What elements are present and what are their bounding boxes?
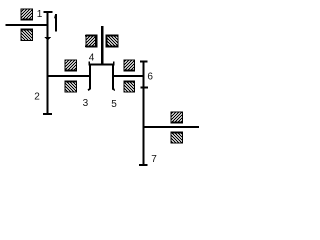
gear 7 lower half — [171, 132, 183, 143]
gear 5 lower half — [124, 81, 135, 92]
clutch right foot — [112, 88, 115, 91]
gear 4 right half — [106, 35, 119, 47]
bearing cap top of shaft I — [43, 11, 52, 13]
clutch left foot — [88, 88, 91, 91]
shaft I vertical — [47, 11, 49, 115]
arrow marker on shaft II — [140, 87, 148, 89]
gear 7 upper half — [171, 112, 183, 123]
clutch right leg — [112, 64, 114, 89]
arrow marker on shaft I — [45, 37, 51, 40]
gear 3 lower half — [65, 81, 77, 92]
shaft II vertical right — [143, 61, 145, 166]
svg-text:2: 2 — [34, 91, 40, 102]
gear 4 left half — [85, 35, 97, 47]
clutch yoke left tick — [88, 62, 89, 64]
wire: input horizontal shaft segment top-left — [6, 24, 49, 26]
gear 3 upper half — [65, 60, 77, 71]
svg-text:6: 6 — [147, 72, 153, 83]
shaft of gear 4 (vertical) — [101, 26, 103, 65]
input mark tall 1 — [54, 14, 57, 31]
svg-text:3: 3 — [83, 98, 89, 109]
clutch left leg — [89, 64, 91, 89]
bearing cap top of shaft II — [140, 60, 148, 62]
wire: intermediate horizontal shaft right segment — [113, 75, 145, 77]
gear 1 lower half (hatched) — [21, 29, 33, 41]
clutch yoke bar — [88, 64, 114, 66]
wire: output horizontal shaft bottom-right — [143, 126, 200, 128]
svg-text:1: 1 — [37, 9, 43, 20]
bearing cap bottom of shaft I — [43, 113, 52, 115]
svg-text:4: 4 — [89, 52, 95, 63]
clutch yoke right tick — [113, 62, 114, 64]
bearing cap bottom of shaft II — [139, 164, 148, 166]
gear 5 upper half — [124, 60, 135, 71]
wire: intermediate horizontal shaft left segment — [47, 75, 90, 77]
svg-text:7: 7 — [151, 154, 157, 165]
gear 1 upper half (hatched) — [21, 9, 33, 20]
svg-text:5: 5 — [111, 99, 117, 110]
